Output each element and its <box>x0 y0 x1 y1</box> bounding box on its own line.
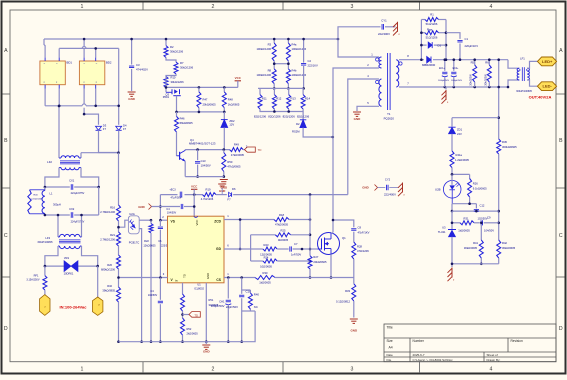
svg-text:5.1kΩ/1206: 5.1kΩ/1206 <box>32 199 44 201</box>
wire opto bottom rail <box>452 197 470 204</box>
resistor R52 <box>181 318 185 335</box>
svg-text:F7: F7 <box>123 127 127 131</box>
svg-text:R41a: R41a <box>456 153 463 157</box>
svg-text:R26: R26 <box>107 263 112 267</box>
resistor R13 <box>288 88 290 94</box>
resistor R25 <box>251 234 276 236</box>
resistor R7 <box>166 58 176 63</box>
resistor R19 <box>203 193 217 197</box>
resistor R10b <box>165 77 167 85</box>
wire FB branch <box>452 117 499 119</box>
wire Vin net from divider <box>119 277 168 279</box>
svg-text:D6: D6 <box>232 187 236 191</box>
svg-text:D3: D3 <box>103 123 107 127</box>
svg-text:1: 1 <box>81 367 84 373</box>
svg-text:2kΩ/0605: 2kΩ/0605 <box>187 331 199 335</box>
svg-text:R3: R3 <box>268 43 272 47</box>
chassis earth secondary <box>445 87 447 90</box>
svg-text:GND: GND <box>354 117 362 121</box>
svg-text:12V: 12V <box>229 123 234 127</box>
svg-text:F7: F7 <box>103 127 107 131</box>
svg-text:30kΩ/0605: 30kΩ/0605 <box>464 246 478 250</box>
bridge rectifier BD1 <box>40 61 65 85</box>
svg-text:9.1kΩ/0605: 9.1kΩ/0605 <box>473 186 487 190</box>
resistor R49 <box>230 148 244 152</box>
wire chain <box>118 221 120 232</box>
wire IC GND pin drop <box>205 283 207 342</box>
svg-text:300uH/100605: 300uH/100605 <box>516 90 532 93</box>
wire BD2 feed <box>83 39 85 46</box>
wire chain3 <box>118 269 120 287</box>
svg-text:C8: C8 <box>358 226 362 230</box>
inductor L1 <box>44 187 46 191</box>
svg-text:OUT:40V/2A: OUT:40V/2A <box>529 95 552 100</box>
svg-text:VCC: VCC <box>191 185 198 189</box>
svg-text:47μF/50V: 47μF/50V <box>171 197 182 200</box>
svg-text:104/50V: 104/50V <box>167 211 177 214</box>
resistor R14 <box>302 88 304 94</box>
ground GND4 <box>350 318 358 320</box>
wire CX1-CX2 right <box>98 187 100 215</box>
capacitor C13 <box>197 150 199 161</box>
resistor R41a <box>450 151 454 168</box>
resistor R8 <box>273 61 275 69</box>
svg-text:51Ω/1206: 51Ω/1206 <box>426 22 438 26</box>
svg-text:R42: R42 <box>502 241 507 245</box>
wire secondary out <box>399 59 424 61</box>
svg-text:BD2: BD2 <box>106 61 112 65</box>
svg-text:A: A <box>4 48 8 54</box>
ground GND2 <box>218 183 226 185</box>
wire T1 pin5 to gnd <box>357 106 379 111</box>
shunt reference U3 TL431 <box>448 229 456 231</box>
svg-text:C:\Users\..\..\ICL8002.SchDoc: C:\Users\..\..\ICL8002.SchDoc <box>413 358 454 362</box>
svg-text:A: A <box>559 48 563 54</box>
ground GND3 <box>353 111 361 113</box>
svg-text:3.15A/250V: 3.15A/250V <box>26 279 39 282</box>
output choke LF1 <box>508 60 519 68</box>
svg-text:C12: C12 <box>480 203 485 207</box>
chassis earth CY2 <box>402 183 404 193</box>
diode D1clamp <box>421 44 426 46</box>
svg-text:R25: R25 <box>281 229 286 233</box>
svg-text:Title: Title <box>387 326 393 330</box>
svg-text:R49: R49 <box>234 143 239 147</box>
capacitor C9 <box>474 222 480 224</box>
svg-text:F7: F7 <box>227 197 231 201</box>
svg-text:100kΩ/1206: 100kΩ/1206 <box>256 73 271 77</box>
svg-text:TL431: TL431 <box>438 230 446 234</box>
resistor R23 <box>251 248 263 250</box>
capacitor C8 snubber <box>333 220 354 227</box>
resistor R40 <box>249 290 251 293</box>
capacitor C5 <box>159 278 161 300</box>
svg-text:30kΩ/0605: 30kΩ/0605 <box>502 246 516 250</box>
electrolytic EC2 <box>453 60 455 71</box>
svg-text:B: B <box>4 138 8 144</box>
svg-text:BD1: BD1 <box>67 61 73 65</box>
svg-text:GND: GND <box>203 350 211 354</box>
svg-text:R22: R22 <box>144 239 149 243</box>
title block <box>384 324 556 362</box>
svg-text:47kΩ/0605: 47kΩ/0605 <box>227 165 241 169</box>
resistor R32 <box>117 287 121 302</box>
svg-text:10DR01: 10DR01 <box>64 271 74 275</box>
resistor R22 <box>150 219 153 222</box>
port TD2 <box>182 311 184 318</box>
ground GND6 <box>220 179 228 181</box>
svg-text:MMBT4401/SOT-123: MMBT4401/SOT-123 <box>189 142 216 146</box>
svg-text:Date: Date <box>387 353 394 357</box>
svg-text:222/400V: 222/400V <box>378 32 390 36</box>
svg-text:100μF/50V: 100μF/50V <box>211 304 225 308</box>
resistor R48 <box>223 87 225 92</box>
svg-text:300kΩ/0605: 300kΩ/0605 <box>502 145 517 149</box>
svg-text:R14: R14 <box>305 97 311 101</box>
optocoupler U2A <box>128 216 139 234</box>
svg-text:MBR20I00: MBR20I00 <box>422 63 436 67</box>
svg-text:CS: CS <box>216 278 221 282</box>
svg-text:VCC: VCC <box>195 220 199 226</box>
svg-text:1kΩ/0605: 1kΩ/0605 <box>228 103 240 107</box>
wire chain2 <box>118 246 120 255</box>
svg-text:R11: R11 <box>262 97 267 101</box>
svg-text:R28: R28 <box>357 244 362 248</box>
resistor R47 <box>198 87 200 92</box>
svg-text:1nF/50V: 1nF/50V <box>291 252 301 256</box>
svg-text:47kΩ/0605: 47kΩ/0605 <box>275 223 289 227</box>
wire N connector drop <box>97 266 99 297</box>
svg-text:EC1+: EC1+ <box>439 68 445 70</box>
svg-text:C: C <box>4 233 8 239</box>
svg-text:2: 2 <box>212 4 215 10</box>
wire TD pin drop <box>182 283 184 294</box>
resistor R1b <box>421 32 425 34</box>
svg-text:R1: R1 <box>430 13 434 17</box>
capacitor C2 <box>303 39 305 63</box>
wire fb row <box>452 210 499 212</box>
connector P1 line input L <box>40 295 50 316</box>
ground GND1 <box>128 91 136 93</box>
svg-text:PQ2620: PQ2620 <box>384 117 395 121</box>
svg-text:R46: R46 <box>180 116 185 120</box>
svg-text:R5: R5 <box>471 60 475 64</box>
svg-text:B: B <box>559 138 563 144</box>
wire BD1 feed <box>43 39 45 45</box>
wire Q1 source <box>330 254 332 277</box>
svg-text:C4: C4 <box>150 289 154 293</box>
resistor R30 <box>255 276 275 280</box>
svg-text:47Ω/1206: 47Ω/1206 <box>357 249 369 253</box>
wire HV column <box>118 48 120 124</box>
wire T1 pin4 aux <box>348 79 379 195</box>
wire C10 R40 bottom <box>242 310 255 312</box>
wire Q4 collector net <box>185 149 229 151</box>
svg-text:Size: Size <box>387 339 393 343</box>
svg-text:R2: R2 <box>170 45 174 49</box>
transistor Q4 <box>177 155 180 157</box>
wire BD2 to D3 <box>83 89 85 105</box>
svg-text:47pF/1KV: 47pF/1KV <box>358 230 370 234</box>
resistor R04 <box>30 189 45 191</box>
electrolytic EC1 <box>444 60 446 71</box>
svg-text:R13: R13 <box>291 97 297 101</box>
svg-text:R31: R31 <box>464 216 469 220</box>
svg-text:R26: R26 <box>473 182 478 186</box>
capacitor C12 <box>475 204 477 209</box>
svg-text:R12: R12 <box>276 97 282 101</box>
svg-text:82Ω/1206: 82Ω/1206 <box>254 115 267 119</box>
svg-text:R47: R47 <box>203 98 208 102</box>
optocoupler U2B <box>452 173 470 175</box>
capacitor CY1 <box>337 38 340 41</box>
svg-text:R6: R6 <box>485 60 489 64</box>
svg-text:R8: R8 <box>268 69 272 73</box>
resistor R12 <box>273 88 275 94</box>
wire tl431 row <box>451 211 453 229</box>
resistor R16 <box>117 205 121 221</box>
svg-text:U2B: U2B <box>435 188 441 192</box>
transistor Q3 <box>165 84 167 92</box>
resistor R3 <box>273 39 275 43</box>
svg-text:Q1: Q1 <box>342 236 346 240</box>
svg-text:EC2+: EC2+ <box>453 68 459 70</box>
electrolytic CH1 <box>226 299 231 301</box>
svg-text:Number: Number <box>413 339 425 343</box>
wire AC rail <box>59 47 118 49</box>
wire secondary return <box>399 86 508 88</box>
diode D3 <box>96 126 102 130</box>
svg-text:Revision: Revision <box>511 339 523 343</box>
svg-text:PC817C: PC817C <box>129 240 140 244</box>
svg-text:R40: R40 <box>254 293 260 297</box>
svg-text:1kΩ/0605: 1kΩ/0605 <box>259 280 271 284</box>
capacitor C4 <box>152 206 181 208</box>
svg-text:104/50V: 104/50V <box>148 294 158 297</box>
svg-text:4: 4 <box>490 4 493 10</box>
svg-text:1000μF/50V: 1000μF/50V <box>438 80 450 82</box>
svg-text:D1: D1 <box>438 43 442 47</box>
svg-text:22pF/50V: 22pF/50V <box>226 305 238 309</box>
resistor R2 <box>165 39 167 46</box>
svg-text:NC: NC <box>254 305 258 309</box>
svg-text:File: File <box>387 358 392 362</box>
capacitor CX2 <box>45 214 70 216</box>
svg-text:R41: R41 <box>473 241 478 245</box>
capacitor C10 <box>241 290 243 294</box>
wire VCC pin drop <box>193 195 195 217</box>
margin ticks <box>142 3 144 11</box>
resistor R4b <box>287 61 289 69</box>
transformer T1 <box>379 57 382 68</box>
svg-text:R50: R50 <box>227 160 232 164</box>
svg-text:VCC: VCC <box>235 76 242 80</box>
wire ZCD net <box>224 219 274 221</box>
svg-text:D: D <box>4 326 8 332</box>
svg-text:D4: D4 <box>123 123 127 127</box>
wire choke tap <box>81 152 119 154</box>
svg-text:U2A: U2A <box>129 212 135 216</box>
wire CS drop CH1 <box>227 278 229 299</box>
zener ZD2 <box>223 112 225 120</box>
svg-text:30kΩ/1206: 30kΩ/1206 <box>171 80 185 84</box>
resistor R26 <box>117 255 121 269</box>
svg-text:VR1: VR1 <box>64 256 70 260</box>
ground GND5 <box>205 342 207 344</box>
wire VCC top rail <box>166 86 238 88</box>
svg-text:C3: C3 <box>136 63 140 67</box>
svg-text:CY2: CY2 <box>385 178 391 182</box>
resistor R21 <box>117 232 121 246</box>
diode D2 <box>302 112 304 120</box>
common-mode choke LF2 <box>58 106 60 158</box>
svg-text:R4a: R4a <box>292 43 297 47</box>
svg-text:2025-6-7: 2025-6-7 <box>413 353 425 357</box>
svg-text:GND: GND <box>206 273 210 279</box>
svg-text:GD: GD <box>216 247 222 251</box>
wire T1 pin1 <box>338 39 379 57</box>
svg-text:C13: C13 <box>201 159 206 163</box>
wire ZCD to GD tie <box>239 220 241 250</box>
wire top HV bus <box>44 38 338 40</box>
svg-text:C9: C9 <box>487 216 491 220</box>
svg-text:1000μF/50V: 1000μF/50V <box>451 80 463 82</box>
svg-text:222/1KV: 222/1KV <box>308 63 319 67</box>
connector LED+ <box>537 57 556 66</box>
svg-text:R23: R23 <box>264 243 269 247</box>
svg-text:GND: GND <box>128 97 136 101</box>
diode D6 <box>229 192 232 197</box>
wire divider bottom rail <box>260 109 303 112</box>
svg-text:4.7Ω/1206: 4.7Ω/1206 <box>201 197 214 201</box>
MOSFET Q1 <box>318 233 340 255</box>
wire aux sense column <box>309 195 311 256</box>
svg-text:30kΩ/1206: 30kΩ/1206 <box>180 66 194 70</box>
resistor R18 <box>274 218 289 222</box>
svg-text:R33: R33 <box>345 289 350 293</box>
svg-text:224μF/275V: 224μF/275V <box>71 220 85 223</box>
capacitor CX1 <box>45 186 70 188</box>
svg-text:104/50V: 104/50V <box>201 164 211 168</box>
svg-text:30kΩ/2W: 30kΩ/2W <box>469 74 473 86</box>
svg-text:47kΩ/0605: 47kΩ/0605 <box>231 153 245 157</box>
capacitor C3 <box>131 39 133 65</box>
svg-text:A4: A4 <box>389 346 393 350</box>
svg-text:TD: TD <box>194 313 198 317</box>
svg-text:82Ω/1206: 82Ω/1206 <box>268 115 281 119</box>
connector P2 line input N <box>93 297 103 315</box>
svg-text:30kΩ/1206: 30kΩ/1206 <box>170 50 184 54</box>
svg-text:R4b: R4b <box>292 69 297 73</box>
svg-text:CH1: CH1 <box>219 300 225 304</box>
svg-text:TD: TD <box>183 274 187 278</box>
wire lower rail <box>177 111 225 113</box>
capacitor C1 <box>446 33 460 39</box>
capacitor C6 <box>159 219 162 222</box>
svg-text:39kΩ/0805: 39kΩ/0805 <box>102 289 115 293</box>
wire VS pin <box>160 219 167 221</box>
wire gate <box>310 248 318 250</box>
wire VS feed <box>159 195 161 221</box>
svg-text:R7: R7 <box>180 61 184 65</box>
wire fb bottom rail <box>452 263 499 265</box>
svg-text:+EC3: +EC3 <box>169 188 176 191</box>
svg-text:R52: R52 <box>187 327 192 331</box>
svg-text:R18: R18 <box>279 213 284 217</box>
resistor R42 <box>497 240 501 258</box>
svg-text:IN:100-264Vac: IN:100-264Vac <box>60 304 88 309</box>
svg-text:R10: R10 <box>171 76 176 80</box>
svg-text:R24: R24 <box>264 255 269 259</box>
svg-text:U3: U3 <box>442 226 446 230</box>
svg-text:R16: R16 <box>110 206 115 210</box>
svg-text:24V: 24V <box>457 132 462 136</box>
diode D4 <box>116 126 122 130</box>
svg-text:R32: R32 <box>107 284 112 288</box>
svg-text:300μH: 300μH <box>53 203 61 207</box>
wire VCC rail <box>160 194 177 196</box>
svg-text:100kΩ/1206: 100kΩ/1206 <box>292 47 307 51</box>
svg-text:GND: GND <box>138 205 144 209</box>
svg-text:224μF/275V: 224μF/275V <box>71 192 85 195</box>
svg-text:ICL8002: ICL8002 <box>194 287 204 291</box>
svg-text:20kΩ/0605: 20kΩ/0605 <box>313 260 327 264</box>
svg-text:LF3: LF3 <box>45 236 50 240</box>
svg-text:ZD1: ZD1 <box>457 128 463 132</box>
svg-text:P601: P601 <box>163 95 170 99</box>
resistor R45 <box>497 139 501 154</box>
connector LED- <box>537 82 556 91</box>
svg-text:R27: R27 <box>313 255 318 259</box>
resistor R50 <box>223 150 225 153</box>
svg-text:51Ω/1206: 51Ω/1206 <box>426 36 438 40</box>
svg-text:LED+: LED+ <box>542 59 553 64</box>
svg-text:LF1: LF1 <box>520 56 525 60</box>
wire U2A pins <box>139 219 151 221</box>
wire rail mid <box>216 194 227 196</box>
svg-text:474/402V: 474/402V <box>136 68 148 72</box>
svg-text:R51: R51 <box>209 298 214 302</box>
svg-text:Raa: Raa <box>427 27 432 31</box>
resistor R28 <box>352 242 356 259</box>
svg-text:30kΩ/2W: 30kΩ/2W <box>483 74 487 86</box>
resistor R26b <box>469 174 471 178</box>
svg-text:1kΩ/0605: 1kΩ/0605 <box>458 228 470 232</box>
svg-text:D2: D2 <box>296 122 300 126</box>
resistor R11 <box>259 88 261 94</box>
svg-text:ZCD: ZCD <box>214 220 221 224</box>
chassis earth fb <box>451 264 453 267</box>
svg-text:CX2: CX2 <box>69 207 75 211</box>
capacitor CY2 <box>386 185 388 191</box>
svg-text:104/50V: 104/50V <box>484 228 494 232</box>
resistor R1a <box>421 19 425 21</box>
zener ZD1 <box>451 118 453 127</box>
svg-text:R48: R48 <box>228 98 233 102</box>
svg-text:LF2: LF2 <box>47 160 52 164</box>
svg-text:D: D <box>559 326 563 332</box>
wire FB column <box>498 60 500 139</box>
svg-text:2: 2 <box>212 367 215 373</box>
svg-text:U1: U1 <box>197 283 201 287</box>
wire divider top rail <box>258 87 304 89</box>
svg-text:Sheet of: Sheet of <box>487 353 498 357</box>
resistor R27 <box>308 256 312 269</box>
electrolytic EC3 <box>179 192 181 198</box>
svg-text:TD: TD <box>258 148 262 152</box>
IC U1 ICL8002 <box>168 216 225 283</box>
svg-text:3: 3 <box>351 4 354 10</box>
